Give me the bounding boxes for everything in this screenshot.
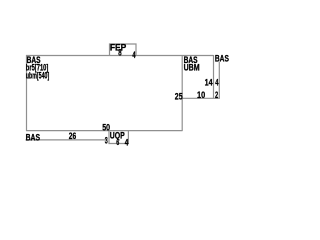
svg-text:6: 6 [116, 137, 119, 147]
wire right wing outer vertical [218, 62, 220, 98]
svg-text:4: 4 [125, 138, 129, 148]
svg-text:2: 2 [215, 90, 218, 101]
wire right wing bottom edge [182, 97, 220, 99]
svg-text:BAS: BAS [26, 132, 40, 142]
wire top edge of BAS [26, 55, 214, 57]
svg-text:26: 26 [69, 131, 76, 142]
svg-text:25: 25 [175, 92, 183, 103]
wire right edge of BAS [181, 55, 183, 131]
svg-text:BAS: BAS [215, 53, 229, 64]
svg-text:10: 10 [197, 90, 205, 101]
svg-text:ubm[540]: ubm[540] [26, 71, 49, 81]
wire right wing inner vertical [213, 55, 215, 98]
UQP porch box [109, 131, 128, 144]
wire bottom edge of BAS [26, 130, 183, 132]
svg-text:4: 4 [132, 50, 135, 60]
wire lower ledge line [26, 139, 108, 141]
wire left edge of BAS [26, 55, 28, 131]
svg-text:3: 3 [105, 136, 108, 146]
svg-text:8: 8 [118, 47, 121, 57]
svg-text:14: 14 [205, 78, 214, 89]
FEP porch box [110, 44, 137, 56]
svg-text:UBM: UBM [184, 62, 200, 72]
svg-text:4: 4 [215, 78, 219, 89]
